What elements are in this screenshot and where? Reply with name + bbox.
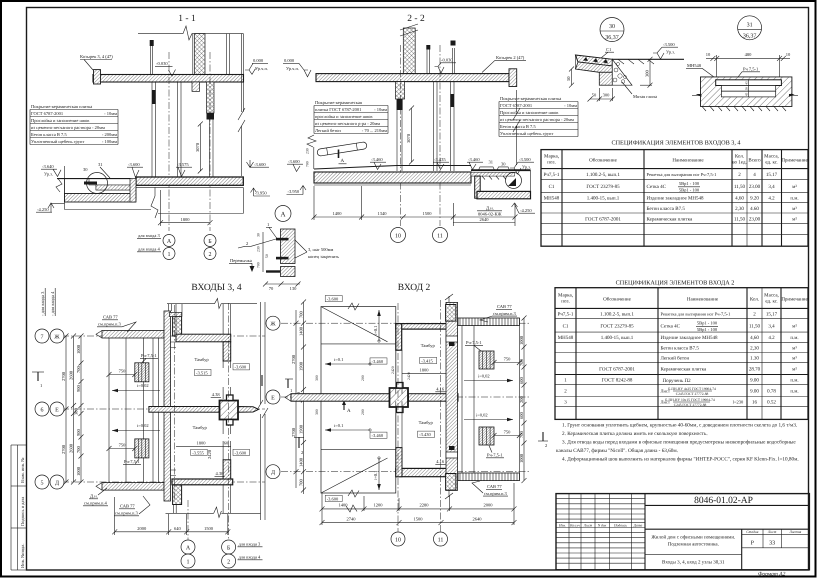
svg-text:i=0.1: i=0.1 [334, 423, 343, 428]
svg-text:Входы 3, 4, вход 2 узлы 30,31: Входы 3, 4, вход 2 узлы 30,31 [662, 560, 725, 566]
svg-text:2600: 2600 [69, 443, 74, 453]
svg-text:45: 45 [745, 92, 749, 96]
axis Д line plan2 [281, 471, 530, 473]
svg-text:А: А [186, 545, 191, 551]
svg-text:С245 ГОСТ 27772-88: С245 ГОСТ 27772-88 [674, 403, 707, 407]
svg-text:Б: Б [227, 545, 231, 551]
stair post 2-2 [426, 45, 430, 74]
detail A wall hatched [281, 229, 296, 264]
canopy edge band bottom [96, 483, 164, 491]
facade post right [227, 34, 230, 75]
boxed levels ramp [325, 296, 342, 302]
svg-text:700: 700 [519, 359, 524, 367]
svg-text:Жилой дом с офисными помещения: Жилой дом с офисными помещениями. [651, 535, 735, 541]
svg-text:480: 480 [745, 52, 753, 57]
svg-text:3,4: 3,4 [768, 184, 775, 190]
svg-text:33: 33 [769, 541, 775, 547]
svg-text:ГОСТ 8242-88: ГОСТ 8242-88 [602, 378, 633, 384]
svg-text:из цементо-песчаного раствора: из цементо-песчаного раствора - 20мм [500, 117, 574, 122]
grate top plan2 [479, 351, 494, 369]
svg-text:200: 200 [361, 409, 365, 415]
level -3.600 mid [127, 162, 143, 178]
svg-text:-3.600: -3.600 [254, 162, 266, 167]
svg-text:Обозначение: Обозначение [603, 297, 631, 303]
comb canopy band bottom plan2 [458, 473, 519, 481]
svg-text:Кол.уч: Кол.уч [569, 523, 580, 527]
svg-text:30: 30 [501, 162, 506, 167]
svg-text:1400: 1400 [299, 457, 304, 467]
svg-text:1340: 1340 [378, 211, 388, 216]
dim 1800 60 plan1 [176, 441, 231, 460]
svg-text:2 - 2: 2 - 2 [407, 14, 425, 24]
svg-text:4,60: 4,60 [735, 196, 744, 202]
svg-text:Подпись и дата: Подпись и дата [20, 497, 25, 526]
svg-text:1000: 1000 [76, 344, 81, 354]
svg-text:- 100мм: - 100мм [102, 139, 117, 144]
svg-text:-4.250: -4.250 [520, 208, 532, 213]
E slab band plan2 [285, 394, 458, 402]
tambour top walls plan2 [396, 324, 455, 330]
svg-text:Бетон класса В7.5: Бетон класса В7.5 [647, 206, 686, 212]
svg-text:Покрытие-керамическая: Покрытие-керамическая [315, 100, 362, 105]
floor slab 2-2 [314, 172, 471, 183]
svg-text:1 - 1: 1 - 1 [178, 14, 196, 24]
svg-text:750: 750 [504, 357, 512, 362]
svg-text:3, шаг 500мм: 3, шаг 500мм [308, 247, 334, 252]
svg-text:из цементо-песчаного р-ра - 20: из цементо-песчаного р-ра - 20мм [315, 121, 380, 126]
svg-text:Инв. №подл.: Инв. №подл. [20, 543, 25, 568]
svg-text:Д: Д [55, 480, 59, 486]
svg-text:-3.500: -3.500 [519, 157, 531, 162]
svg-text:1800: 1800 [420, 368, 430, 373]
level -3.950 right [251, 188, 271, 196]
svg-text:САВ 77: САВ 77 [120, 504, 135, 509]
svg-text:Керамическая плитка: Керамическая плитка [661, 367, 708, 373]
svg-text:36,37: 36,37 [743, 33, 757, 39]
svg-text:Легкий бетон: Легкий бетон [315, 128, 341, 133]
svg-text:Перемычка: Перемычка [230, 258, 252, 263]
svg-text:130: 130 [290, 286, 298, 291]
floor line 2-2 [314, 166, 471, 170]
axis circle 11 [433, 228, 448, 243]
1800 dim plan2 [402, 368, 446, 381]
svg-text:i=0.02: i=0.02 [137, 423, 149, 428]
svg-text:Всего: Всего [748, 158, 761, 164]
svg-text:0.000: 0.000 [253, 58, 264, 63]
svg-text:1800: 1800 [197, 441, 207, 446]
axis circle Ж plan2 [266, 316, 280, 330]
svg-text:Решетка для вытирания ног Рч-7: Решетка для вытирания ног Рч-7,5-1 [647, 172, 717, 177]
svg-text:из цементо-песчаного раствора: из цементо-песчаного раствора - 20мм [31, 125, 105, 130]
svg-text:9.20: 9.20 [750, 196, 759, 202]
svg-text:2: 2 [246, 241, 248, 246]
svg-text:С245 ГОСТ 27772-88: С245 ГОСТ 27772-88 [676, 392, 709, 396]
svg-text:1500: 1500 [423, 211, 433, 216]
svg-text:Тамбур: Тамбур [419, 420, 434, 425]
svg-text:N док: N док [597, 523, 607, 527]
svg-text:2: 2 [545, 443, 547, 448]
svg-text:30: 30 [745, 87, 749, 91]
svg-text:3,4: 3,4 [768, 324, 775, 330]
svg-text:Уплотненный щебень грунт: Уплотненный щебень грунт [31, 139, 84, 144]
svg-text:СПЕЦИФИКАЦИЯ ЭЛЕМЕНТОВ ВХОДА 2: СПЕЦИФИКАЦИЯ ЭЛЕМЕНТОВ ВХОДА 2 [616, 280, 735, 287]
entrance labels [137, 233, 161, 252]
railing post on canopy [150, 40, 154, 75]
grate bottom plan2 [479, 427, 494, 445]
svg-text:Ж: Ж [270, 322, 276, 328]
svg-text:1: 1 [168, 252, 171, 258]
svg-text:во 1ед.: во 1ед. [732, 160, 747, 166]
svg-text:Поручень П2: Поручень П2 [663, 378, 692, 384]
svg-text:750: 750 [119, 443, 127, 448]
svg-text:2000: 2000 [484, 503, 494, 508]
svg-text:Д.н.: Д.н. [90, 494, 98, 499]
svg-text:САВ 77: САВ 77 [103, 315, 118, 320]
svg-text:для входа 3: для входа 3 [138, 233, 160, 238]
svg-text:700: 700 [519, 431, 524, 439]
grate bottom plan1 [135, 439, 149, 458]
pit left wall [475, 176, 481, 198]
axis circle Е plan2 [266, 390, 280, 404]
svg-text:Б: Б [208, 239, 212, 245]
svg-text:Наименование: Наименование [672, 158, 704, 164]
dim 50 left [566, 67, 574, 88]
svg-text:поз.: поз. [547, 161, 555, 166]
svg-text:п.м.: п.м. [790, 379, 798, 384]
svg-text:31: 31 [489, 160, 494, 165]
svg-text:-3.460: -3.460 [371, 157, 383, 162]
svg-text:Ур.ч.п.: Ур.ч.п. [255, 66, 268, 71]
axis Е line [62, 408, 265, 410]
svg-text:2700: 2700 [61, 371, 66, 381]
svg-text:А: А [280, 211, 285, 219]
axis stubs plan2 [397, 303, 399, 532]
title block [556, 494, 809, 570]
svg-text:i=0.1: i=0.1 [334, 357, 343, 362]
tambour side thin walls [223, 361, 231, 460]
break in floor below [65, 187, 244, 218]
svg-text:23.00: 23.00 [749, 184, 761, 190]
svg-text:м²: м² [792, 184, 797, 190]
svg-text:i=0.1: i=0.1 [373, 471, 378, 480]
axis stubs to circles plan1 [187, 500, 189, 540]
right dim chain plan2 [519, 316, 527, 484]
axis circle 1 plan1 [181, 554, 195, 568]
svg-text:300: 300 [315, 409, 319, 415]
svg-text:700: 700 [299, 479, 304, 487]
wall below slab 2-2 right [451, 82, 455, 171]
tambour bottom walls [172, 479, 233, 485]
svg-text:Прослойка и заполнение швов: Прослойка и заполнение швов [31, 118, 89, 123]
axis circle 5 [35, 475, 49, 489]
level -4.250 [36, 203, 65, 212]
svg-text:1: 1 [187, 559, 190, 565]
canopy right upstand [509, 69, 517, 87]
svg-text:Подпись: Подпись [613, 523, 627, 527]
svg-text:15.17: 15.17 [766, 172, 778, 178]
detail bubble on tray [506, 173, 522, 189]
svg-text:2,30: 2,30 [750, 345, 759, 351]
canopy slab 1-1 [93, 75, 244, 83]
slope i=0,02 arrows plan2 [464, 374, 513, 383]
svg-text:Ж: Ж [54, 334, 60, 340]
svg-text:640: 640 [174, 526, 182, 531]
svg-text:700: 700 [76, 366, 81, 374]
svg-text:4.38: 4.38 [212, 392, 221, 397]
svg-text:230: 230 [257, 246, 261, 252]
svg-text:-3.460: -3.460 [372, 433, 384, 438]
svg-text:0.52: 0.52 [767, 400, 776, 406]
svg-text:Марка,: Марка, [544, 154, 559, 160]
svg-text:-3.575: -3.575 [177, 162, 189, 167]
ceiling line with break [138, 26, 244, 40]
dim 1800 section 1-1 [158, 190, 213, 226]
svg-text:3070: 3070 [406, 133, 411, 143]
tray recess [716, 80, 782, 86]
svg-text:-3.435: -3.435 [434, 157, 446, 162]
svg-text:Стадия: Стадия [746, 530, 758, 534]
pit bottom slab hatched [65, 194, 136, 203]
svg-text:2: 2 [209, 252, 212, 258]
svg-text:Обозначение: Обозначение [589, 158, 617, 164]
svg-text:36,37: 36,37 [605, 35, 619, 41]
svg-text:Марка,: Марка, [558, 293, 573, 299]
svg-text:-3.950: -3.950 [255, 191, 267, 196]
svg-text:300: 300 [603, 93, 611, 98]
svg-text:Изделие закладное МН548: Изделие закладное МН548 [661, 335, 719, 341]
axis circle A [163, 235, 175, 247]
svg-text:50: 50 [592, 93, 597, 98]
grate labels plan2 [465, 340, 483, 351]
right boundary 2-2 with break [513, 90, 520, 165]
svg-text:- 200мм: - 200мм [102, 132, 117, 137]
dim 750 bottom [107, 443, 138, 452]
svg-text:-3.640: -3.640 [42, 164, 54, 169]
svg-text:Бетон класса В7.5: Бетон класса В7.5 [661, 345, 700, 351]
axis Ж line plan2 [281, 322, 530, 324]
svg-text:каналы САВ77, фирмы "Nicoll".: каналы САВ77, фирмы "Nicoll". Общая длин… [556, 448, 678, 454]
svg-text:Тамбур: Тамбур [193, 425, 208, 430]
axis circle A plan1 [181, 540, 195, 554]
svg-text:4,60: 4,60 [750, 335, 759, 341]
svg-text:4.2: 4.2 [768, 196, 775, 202]
svg-text:0.000: 0.000 [284, 58, 295, 63]
svg-text:-3.950: -3.950 [288, 189, 300, 194]
4.16 labels plan2 [435, 387, 445, 392]
axis circle 6 [35, 402, 49, 416]
svg-text:1900: 1900 [299, 361, 304, 371]
ramp outline plan2 [321, 307, 396, 493]
svg-text:Козырек 2 (47): Козырек 2 (47) [496, 55, 525, 60]
vertical dim 3070 [195, 122, 203, 174]
detail bubble 30 [87, 173, 108, 194]
svg-text:70: 70 [269, 286, 274, 291]
tile band over pit [471, 172, 515, 176]
tambour bottom walls plan2 [396, 468, 455, 476]
svg-text:300: 300 [315, 375, 319, 381]
level -3.500 Ur.z [510, 157, 534, 174]
axis line B [209, 52, 211, 231]
ramp i=0.1 arrow bottom [325, 423, 371, 432]
svg-text:-3.600: -3.600 [235, 365, 247, 370]
svg-text:Масса,: Масса, [764, 154, 779, 160]
svg-text:-3.600: -3.600 [327, 496, 339, 501]
svg-text:230: 230 [306, 148, 310, 154]
layers note table 2-2 right [499, 102, 578, 137]
leader 3 [295, 240, 339, 259]
svg-text:5Вр1 - 100: 5Вр1 - 100 [679, 181, 700, 186]
svg-text:Тамбур: Тамбур [421, 343, 436, 348]
right stair area verticals plan2 [462, 318, 519, 481]
wall piers cross-hatched plan2 [446, 305, 456, 322]
svg-text:31: 31 [747, 22, 753, 28]
entrance labels plan1 bottom [238, 542, 263, 560]
clay label [622, 82, 657, 99]
svg-text:600: 600 [519, 412, 524, 420]
svg-text:см.прим.п.3: см.прим.п.3 [493, 311, 517, 316]
boxed levels plan1 [195, 369, 212, 375]
svg-text:8046-02-КЖ: 8046-02-КЖ [478, 212, 502, 217]
axis Е line plan2 [281, 396, 530, 398]
svg-text:1400: 1400 [333, 211, 343, 216]
section mark A on ramp [339, 150, 347, 165]
boxed levels plan2 [420, 357, 437, 363]
svg-text:11,50: 11,50 [734, 216, 746, 222]
svg-text:Листов: Листов [788, 530, 801, 534]
svg-text:10: 10 [395, 537, 401, 543]
small mid dims [745, 80, 749, 97]
svg-text:4.2: 4.2 [768, 335, 775, 341]
svg-text:2420: 2420 [407, 372, 411, 380]
svg-text:САВ 77: САВ 77 [487, 484, 502, 489]
svg-text:МН548: МН548 [558, 335, 574, 341]
pit walls [65, 179, 136, 202]
svg-text:м²: м² [792, 324, 797, 330]
svg-text:23,00: 23,00 [749, 216, 761, 222]
svg-text:МН548: МН548 [687, 63, 702, 68]
central building wall plan2 [446, 302, 458, 490]
svg-text:Ур.з.: Ур.з. [522, 165, 531, 170]
grate top plan1 [135, 363, 149, 382]
level -3.950 2-2 left [287, 186, 307, 195]
svg-text:700: 700 [76, 446, 81, 454]
right boundary wall with break [238, 34, 245, 176]
dim 300 right [640, 57, 653, 88]
svg-text:1: 1 [290, 388, 292, 393]
svg-text:Керамическая плитка: Керамическая плитка [647, 216, 694, 222]
bottom edge line plan1 [166, 485, 261, 518]
svg-text:30: 30 [609, 24, 615, 30]
svg-text:1: 1 [267, 222, 269, 227]
axis circle Б plan1 [222, 540, 236, 554]
svg-text:-4.250: -4.250 [37, 207, 49, 212]
svg-text:Лист: Лист [767, 530, 777, 534]
soil hatch below [702, 106, 786, 111]
svg-text:1000: 1000 [519, 453, 524, 463]
svg-text:-3.600: -3.600 [128, 162, 140, 167]
svg-text:ГОСТ 6787-2001: ГОСТ 6787-2001 [585, 216, 621, 222]
svg-text:700: 700 [299, 311, 304, 319]
wall below slab left [152, 82, 156, 177]
svg-text:5Вр1 - 100: 5Вр1 - 100 [679, 188, 700, 193]
svg-text:А: А [167, 239, 172, 245]
svg-text:8046-01.02-АР: 8046-01.02-АР [694, 496, 753, 506]
svg-text:-3.430: -3.430 [419, 432, 431, 437]
svg-text:Бетон класса В 7.5: Бетон класса В 7.5 [500, 124, 536, 129]
upper wall cross-hatched 2-2 [403, 28, 415, 74]
4.38 labels [211, 392, 221, 397]
notes [556, 423, 799, 463]
svg-text:- для входа 4: - для входа 4 [50, 291, 55, 316]
svg-text:- 70 ... 210мм: - 70 ... 210мм [362, 128, 387, 133]
svg-text:-3.515: -3.515 [196, 370, 208, 375]
svg-text:А: А [347, 408, 351, 414]
dim 750 plan2 bottom [492, 430, 522, 439]
svg-text:9.00: 9.00 [750, 378, 759, 384]
axis circle 2 [204, 248, 216, 260]
bubble 30 [600, 18, 624, 42]
svg-text:-3.460: -3.460 [468, 157, 480, 162]
section mark 2 left [294, 437, 304, 455]
bottom dim chains plan2 [320, 483, 517, 525]
section mark 1 right [262, 375, 293, 393]
svg-text:плитка ГОСТ 6787-2001: плитка ГОСТ 6787-2001 [315, 107, 361, 112]
svg-text:п.м.: п.м. [790, 390, 798, 395]
dim 750 top [107, 369, 138, 378]
svg-text:С1: С1 [549, 184, 555, 190]
svg-text:7: 7 [41, 334, 44, 340]
canopy label [80, 54, 113, 70]
leader 2 [238, 239, 276, 248]
cross column plan2 [390, 383, 409, 413]
svg-text:СПЕЦИФИКАЦИЯ ЭЛЕМЕНТОВ ВХОДОВ: СПЕЦИФИКАЦИЯ ЭЛЕМЕНТОВ ВХОДОВ 3, 4 [611, 140, 740, 147]
svg-text:- 10мм: - 10мм [374, 107, 387, 112]
svg-text:3. Для отвода воды перед входа: 3. Для отвода воды перед входами в офисн… [562, 440, 796, 446]
level -3.575 [176, 162, 192, 177]
axis line A [168, 52, 170, 231]
pit bottom slab [477, 191, 531, 198]
svg-text:Рч 7,5-1: Рч 7,5-1 [743, 67, 758, 72]
svg-text:700: 700 [257, 262, 261, 268]
bubble 31 [738, 16, 762, 40]
svg-text:45: 45 [745, 81, 749, 85]
svg-text:-0.030: -0.030 [156, 61, 168, 66]
svg-text:Прослойка и заполнение швов: Прослойка и заполнение швов [500, 110, 558, 115]
ground line and pit 1-1 [57, 178, 130, 180]
axis Ж line [62, 335, 265, 337]
svg-text:-3.500: -3.500 [663, 42, 675, 47]
level -3.460 right [467, 157, 483, 170]
axis circle Е [50, 402, 64, 416]
level -0.030 2-2 [435, 58, 457, 74]
ground band det31 [701, 77, 792, 107]
svg-text:А: А [341, 158, 345, 164]
svg-text:см.прим.п.3: см.прим.п.3 [98, 322, 122, 327]
svg-text:1: 1 [40, 383, 42, 388]
layers note table 2-2 left [314, 106, 388, 134]
ramp bottom triangle [321, 450, 396, 493]
svg-text:i=0,02: i=0,02 [476, 413, 488, 418]
svg-text:2420: 2420 [391, 366, 395, 374]
svg-text:Изм.: Изм. [558, 523, 566, 527]
axis circle 7 [35, 329, 49, 343]
svg-text:2420: 2420 [207, 449, 212, 459]
svg-text:3070: 3070 [195, 142, 200, 152]
svg-text:5: 5 [41, 480, 44, 486]
level -3.435 [433, 157, 449, 170]
svg-text:Е: Е [55, 407, 59, 413]
wall break marks plan2 [445, 294, 453, 499]
